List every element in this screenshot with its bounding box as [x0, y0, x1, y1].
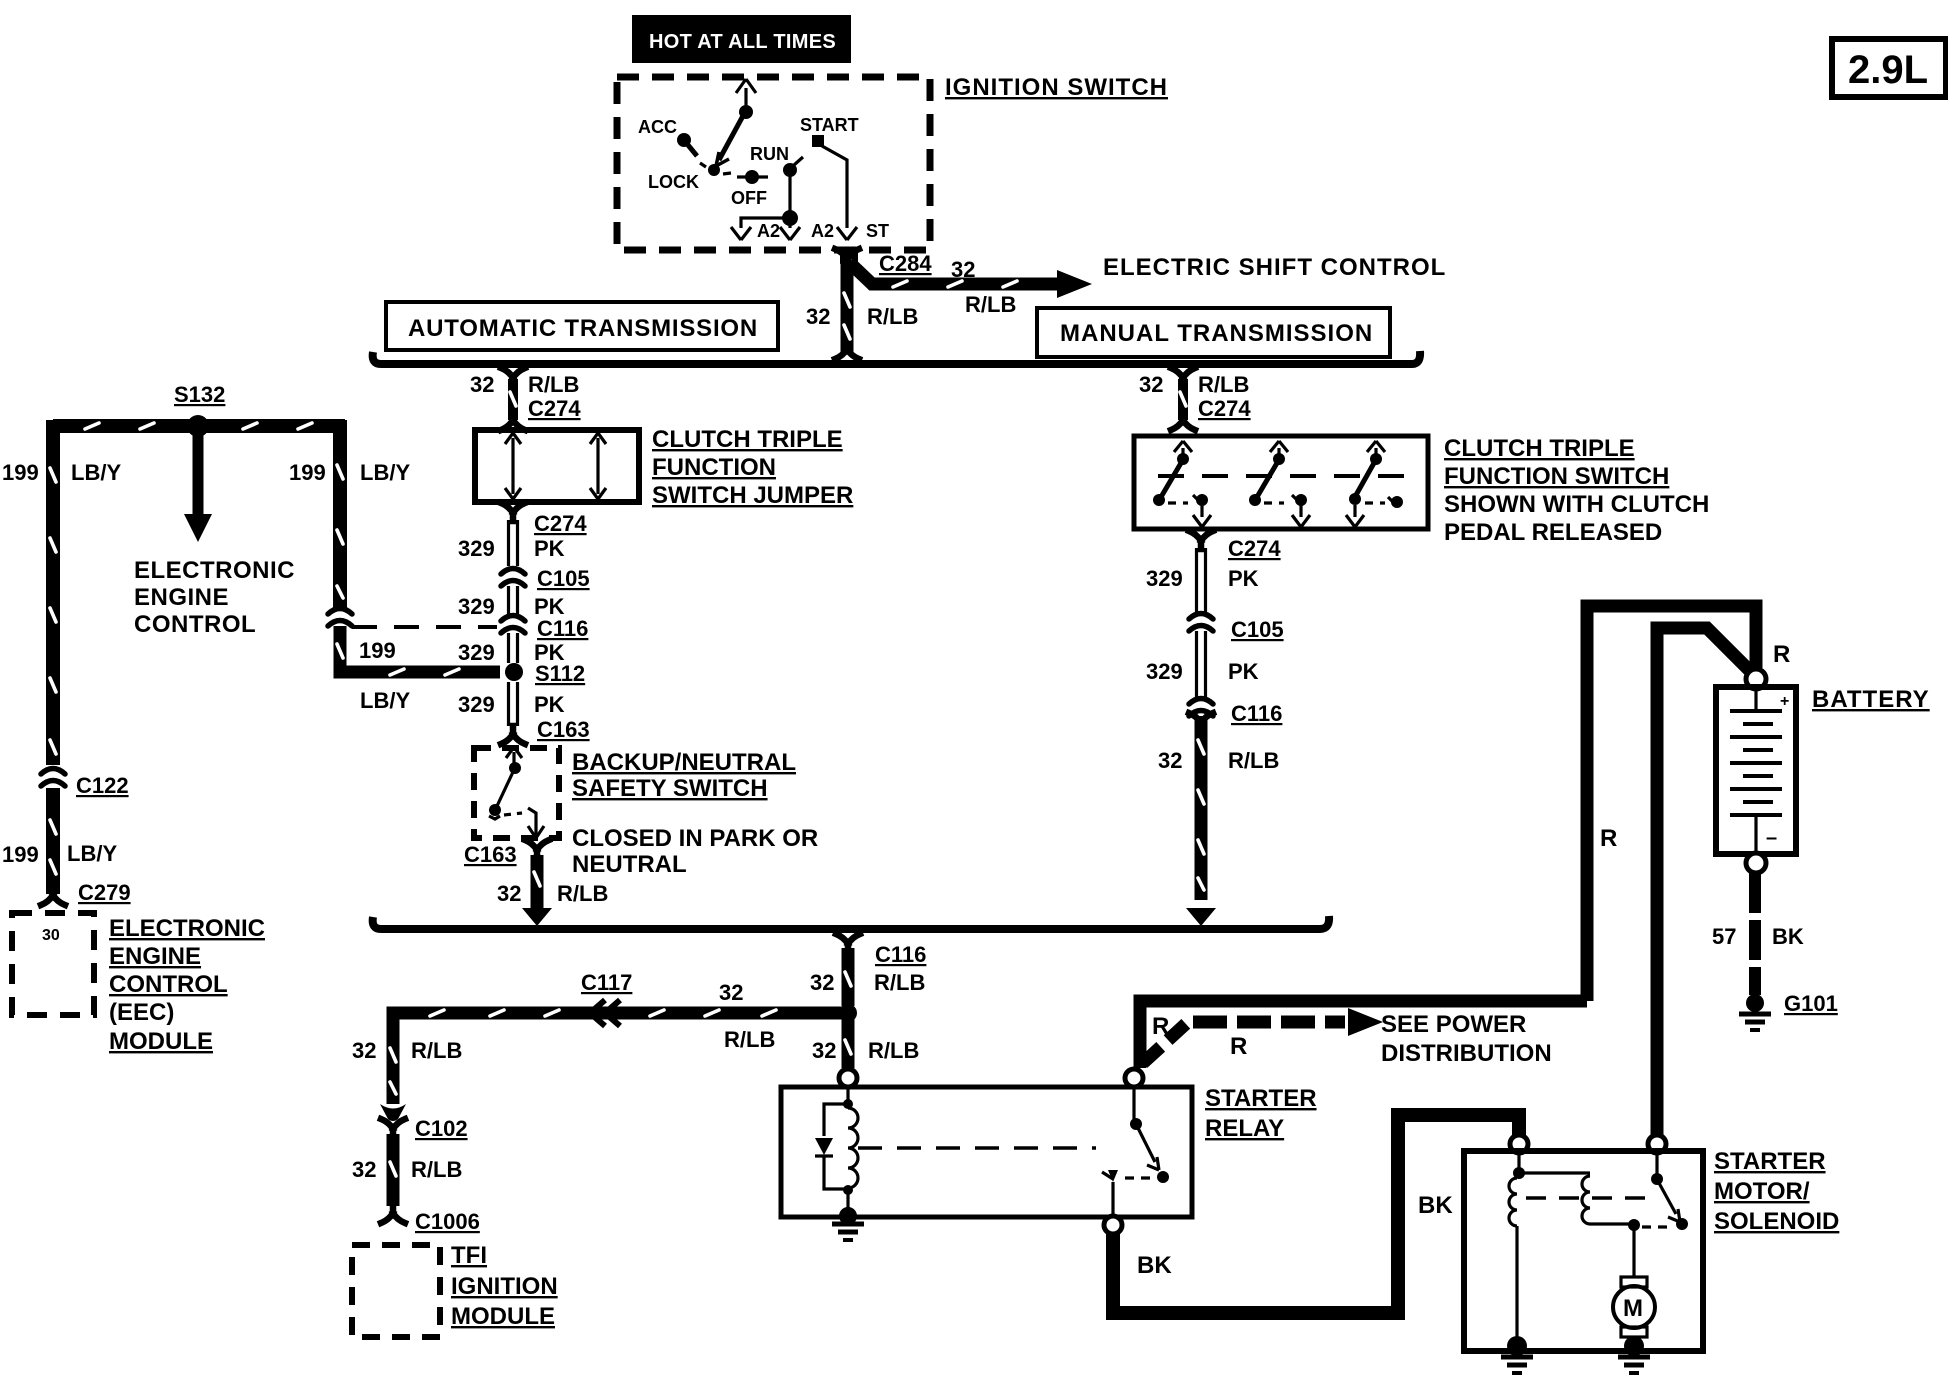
- see power distribution note: [1381, 1011, 1552, 1067]
- starter motor M: [1613, 1219, 1655, 1342]
- svg-text:R: R: [1230, 1033, 1247, 1060]
- svg-text:199: 199: [289, 460, 326, 485]
- label C117: [581, 970, 632, 995]
- connector pair on 199 wire: [328, 609, 352, 627]
- wire label 32 R/LB above bus 2: [497, 881, 608, 906]
- wire 32 R/LB manual to bus 2: [1186, 713, 1216, 926]
- svg-text:ENGINE: ENGINE: [109, 943, 201, 970]
- wire label 32 R/LB (auto C274): [470, 372, 581, 421]
- connector C105 (auto): [501, 569, 525, 618]
- label C116 32 R/LB (bus drop): [810, 942, 926, 995]
- battery box: [1716, 687, 1796, 854]
- battery R feed inner: [1657, 628, 1753, 1140]
- svg-text:LB/Y: LB/Y: [71, 460, 121, 485]
- EEC module label: [109, 915, 265, 1055]
- svg-text:SOLENOID: SOLENOID: [1714, 1208, 1839, 1235]
- wire 199 LB/Y left vertical: [50, 420, 56, 765]
- svg-text:32: 32: [1139, 372, 1163, 397]
- svg-text:32: 32: [810, 970, 834, 995]
- label C116 (manual): [1231, 701, 1282, 726]
- svg-text:NEUTRAL: NEUTRAL: [572, 851, 687, 878]
- svg-text:S112: S112: [535, 661, 585, 686]
- svg-text:CONTROL: CONTROL: [109, 971, 228, 998]
- svg-text:329: 329: [1146, 566, 1183, 591]
- svg-text:AUTOMATIC TRANSMISSION: AUTOMATIC TRANSMISSION: [408, 315, 758, 342]
- wire S132 horizontal run: [53, 423, 345, 429]
- svg-text:R: R: [1152, 1013, 1169, 1040]
- svg-text:PK: PK: [1228, 659, 1259, 684]
- starter relay label: [1205, 1085, 1317, 1142]
- wire label 32 R/LB (manual drop): [1158, 748, 1279, 773]
- starter relay clamp diode: [815, 1104, 845, 1189]
- svg-text:C274: C274: [534, 511, 587, 536]
- svg-text:PEDAL RELEASED: PEDAL RELEASED: [1444, 519, 1662, 546]
- wire label BK (left): [1137, 1252, 1172, 1279]
- svg-text:57: 57: [1712, 924, 1736, 949]
- wire label 32 R/LB (left drop): [352, 1038, 462, 1063]
- electric shift control label: [1103, 254, 1446, 281]
- svg-text:2.9L: 2.9L: [1848, 48, 1928, 92]
- svg-text:C279: C279: [78, 880, 131, 905]
- connector C116 below bus 2: [836, 934, 860, 1006]
- hot at all times power tag: [632, 15, 851, 63]
- wire label 32 R/LB (relay feed): [812, 1038, 919, 1063]
- terminal RUN: [750, 144, 803, 177]
- svg-text:C102: C102: [415, 1116, 468, 1141]
- R wire relay to battery feed: [1140, 1001, 1587, 1068]
- svg-text:32: 32: [951, 257, 975, 282]
- svg-text:ELECTRIC SHIFT CONTROL: ELECTRIC SHIFT CONTROL: [1103, 254, 1446, 281]
- wire label R mid: [1600, 825, 1617, 852]
- svg-text:329: 329: [1146, 659, 1183, 684]
- svg-text:G101: G101: [1784, 991, 1838, 1016]
- svg-text:MODULE: MODULE: [109, 1028, 213, 1055]
- wire label 57 BK: [1712, 924, 1804, 949]
- svg-text:FUNCTION SWITCH: FUNCTION SWITCH: [1444, 463, 1669, 490]
- connector C1006: [381, 1205, 480, 1234]
- BK wire relay to starter motor: [1113, 1115, 1519, 1313]
- connector C117: [590, 1000, 620, 1026]
- wire label 32 R/LB (C117 run): [719, 980, 775, 1052]
- battery negative terminal: [1746, 853, 1766, 873]
- ignition rotor lever: [700, 105, 753, 176]
- svg-text:32: 32: [812, 1038, 836, 1063]
- battery positive terminal: [1746, 669, 1766, 689]
- starter motor ground left: [1501, 1336, 1533, 1373]
- svg-text:199: 199: [2, 460, 39, 485]
- svg-text:30: 30: [42, 927, 60, 944]
- backup/neutral safety switch box: [474, 748, 559, 838]
- pin label A2 second: [811, 221, 834, 241]
- solenoid pull-in coil: [1509, 1151, 1525, 1340]
- clutch jumper box: [475, 430, 639, 502]
- jumper link 2: [590, 433, 606, 499]
- svg-text:BK: BK: [1418, 1192, 1453, 1219]
- starter motor feed pin: [1510, 1135, 1528, 1153]
- svg-text:LOCK: LOCK: [648, 172, 699, 192]
- svg-text:C1006: C1006: [415, 1209, 480, 1234]
- svg-text:TFI: TFI: [451, 1242, 487, 1269]
- svg-text:C116: C116: [537, 616, 588, 641]
- clutch switch pole 1: [1153, 441, 1211, 527]
- svg-text:ENGINE: ENGINE: [134, 584, 229, 611]
- svg-text:329: 329: [458, 640, 495, 665]
- svg-text:C116: C116: [1231, 701, 1282, 726]
- connector C105 (manual): [1189, 614, 1213, 699]
- label 329 PK below S112: [458, 692, 565, 717]
- ignition battery feed arrow: [736, 79, 756, 112]
- svg-text:STARTER: STARTER: [1205, 1085, 1317, 1112]
- svg-text:C105: C105: [537, 566, 590, 591]
- svg-text:R/LB: R/LB: [411, 1038, 462, 1063]
- svg-text:C122: C122: [76, 773, 129, 798]
- wire 32 R/LB to C1006: [390, 1134, 396, 1206]
- svg-text:PK: PK: [1228, 566, 1259, 591]
- wire 32 R/LB to starter relay: [845, 1013, 851, 1068]
- terminal LOCK: [648, 172, 699, 192]
- solenoid switch: [1642, 1151, 1688, 1230]
- wire 199 LB/Y right vertical: [337, 420, 343, 608]
- svg-text:SAFETY SWITCH: SAFETY SWITCH: [572, 775, 768, 802]
- svg-text:SWITCH JUMPER: SWITCH JUMPER: [652, 482, 853, 509]
- svg-text:A2: A2: [811, 221, 834, 241]
- starter relay switch: [1125, 1087, 1169, 1183]
- starter relay armature link: [858, 1146, 1096, 1150]
- svg-text:IGNITION: IGNITION: [451, 1273, 558, 1300]
- solenoid hold-in coil: [1519, 1173, 1630, 1224]
- wire ignition switch to bus 1: [835, 249, 859, 359]
- electronic engine control note: [134, 557, 295, 638]
- svg-text:C105: C105: [1231, 617, 1284, 642]
- ground label G101: [1784, 991, 1838, 1016]
- wire branch to electric shift control: [851, 264, 1092, 298]
- svg-text:RUN: RUN: [750, 144, 789, 164]
- EEC module box: [12, 913, 94, 1015]
- connector C163 below switch: [464, 840, 549, 867]
- arrow S132 to electronic engine control: [184, 433, 212, 542]
- clutch triple function switch label: [1444, 435, 1709, 546]
- wire label 199 LB/Y right: [289, 460, 410, 485]
- starter solenoid battery pin: [1648, 1135, 1666, 1153]
- svg-text:R: R: [1600, 825, 1617, 852]
- svg-text:C117: C117: [581, 970, 632, 995]
- connector C284: [840, 251, 932, 276]
- svg-text:ELECTRONIC: ELECTRONIC: [109, 915, 265, 942]
- starter motor ground right: [1618, 1336, 1650, 1373]
- label 329 PK C274: [458, 511, 587, 561]
- svg-text:–: –: [1766, 827, 1777, 849]
- svg-text:C116: C116: [875, 942, 926, 967]
- svg-text:R/LB: R/LB: [1228, 748, 1279, 773]
- starter relay output contact: [1102, 1170, 1118, 1215]
- solenoid plunger link: [1526, 1196, 1655, 1200]
- manual transmission banner: [1037, 308, 1390, 357]
- svg-text:199: 199: [359, 638, 396, 663]
- starter motor box: [1464, 1151, 1703, 1351]
- svg-text:C163: C163: [464, 842, 517, 867]
- ignition switch box: [617, 77, 930, 250]
- wire label 32 R/LB (shift branch): [951, 257, 1016, 317]
- wire label 199 LB/Y lower left: [2, 841, 117, 867]
- svg-text:CONTROL: CONTROL: [134, 611, 256, 638]
- svg-text:SHOWN WITH CLUTCH: SHOWN WITH CLUTCH: [1444, 491, 1709, 518]
- svg-text:R/LB: R/LB: [1198, 372, 1249, 397]
- svg-text:PK: PK: [534, 692, 565, 717]
- svg-text:BK: BK: [1772, 924, 1804, 949]
- svg-text:S132: S132: [174, 382, 225, 407]
- automatic transmission banner: [386, 302, 778, 350]
- svg-text:C274: C274: [1198, 396, 1251, 421]
- svg-text:329: 329: [458, 536, 495, 561]
- svg-text:SEE POWER: SEE POWER: [1381, 1011, 1526, 1038]
- svg-text:CLUTCH TRIPLE: CLUTCH TRIPLE: [652, 426, 843, 453]
- pin label ST: [866, 221, 889, 241]
- svg-text:FUNCTION: FUNCTION: [652, 454, 776, 481]
- wire label BK (right): [1418, 1192, 1453, 1219]
- wire label 199 LB/Y bottom: [359, 638, 410, 713]
- clutch triple function switch box: [1134, 436, 1428, 529]
- backup switch label: [572, 749, 796, 802]
- svg-text:32: 32: [352, 1038, 376, 1063]
- svg-text:C274: C274: [528, 396, 581, 421]
- pin label A2: [757, 221, 780, 241]
- svg-text:PK: PK: [534, 536, 565, 561]
- svg-text:R/LB: R/LB: [557, 881, 608, 906]
- wire 32 R/LB to bus 2: [522, 855, 552, 926]
- ground G101: [1739, 994, 1771, 1030]
- connector C163: [501, 717, 590, 744]
- connector C102: [380, 1104, 468, 1141]
- wire label R (upper): [1152, 1013, 1169, 1040]
- svg-text:R: R: [1773, 641, 1790, 668]
- clutch switch pole 3: [1346, 441, 1403, 527]
- label 329 PK C116: [458, 616, 588, 665]
- wire 199 LB/Y to S112: [337, 626, 500, 675]
- TFI ignition module label: [451, 1242, 558, 1330]
- starter relay output pin: [1104, 1216, 1122, 1234]
- svg-text:MODULE: MODULE: [451, 1303, 555, 1330]
- clutch switch dashed common: [1158, 474, 1420, 478]
- clutch switch pole 2: [1249, 441, 1310, 527]
- svg-text:329: 329: [458, 594, 495, 619]
- backup switch output contact: [504, 808, 544, 838]
- ignition switch label: [945, 74, 1168, 101]
- connector C116 (manual): [1189, 699, 1213, 717]
- battery R feed outer: [1587, 606, 1756, 1001]
- dashed link to C116: [352, 625, 497, 629]
- wire label R at battery: [1773, 641, 1790, 668]
- svg-text:32: 32: [470, 372, 494, 397]
- svg-text:RELAY: RELAY: [1205, 1115, 1284, 1142]
- connector C274 at bus 1 (manual): [1171, 368, 1195, 430]
- svg-text:BATTERY: BATTERY: [1812, 686, 1930, 713]
- svg-text:A2: A2: [757, 221, 780, 241]
- svg-text:+: +: [1780, 693, 1789, 710]
- svg-text:R/LB: R/LB: [874, 970, 925, 995]
- wire 32 R/LB run to C102: [390, 1010, 848, 1104]
- svg-text:R/LB: R/LB: [724, 1027, 775, 1052]
- svg-text:LB/Y: LB/Y: [360, 688, 410, 713]
- starter motor label: [1714, 1148, 1839, 1235]
- svg-text:R/LB: R/LB: [965, 292, 1016, 317]
- wire RUN to A2 pair: [731, 176, 800, 240]
- svg-text:START: START: [800, 115, 859, 135]
- backup switch contact feed: [506, 747, 522, 774]
- svg-text:CLOSED IN PARK OR: CLOSED IN PARK OR: [572, 825, 818, 852]
- svg-text:199: 199: [2, 842, 39, 867]
- wire label 199 LB/Y upper left: [2, 460, 121, 485]
- terminal ACC: [638, 117, 697, 156]
- connector C274 below clutch switch: [1189, 531, 1213, 614]
- 2.9L engine tag: [1832, 39, 1946, 97]
- svg-text:32: 32: [719, 980, 743, 1005]
- svg-text:C284: C284: [879, 251, 932, 276]
- label 329 PK C105: [458, 566, 590, 619]
- starter relay coil: [843, 1087, 858, 1213]
- svg-text:STARTER: STARTER: [1714, 1148, 1826, 1175]
- battery label: [1812, 686, 1930, 713]
- svg-text:C163: C163: [537, 717, 590, 742]
- junction node at C117 run: [839, 1004, 857, 1022]
- svg-text:ACC: ACC: [638, 117, 677, 137]
- connector C274 below jumper: [501, 503, 525, 566]
- starter relay battery pin: [1125, 1069, 1143, 1087]
- connector C116 (auto): [501, 616, 525, 664]
- svg-text:R/LB: R/LB: [867, 304, 918, 329]
- svg-text:C274: C274: [1228, 536, 1281, 561]
- svg-text:BK: BK: [1137, 1252, 1172, 1279]
- svg-text:LB/Y: LB/Y: [360, 460, 410, 485]
- wire 199 LB/Y to EEC: [41, 788, 65, 905]
- svg-text:R/LB: R/LB: [528, 372, 579, 397]
- starter relay ground: [832, 1207, 864, 1240]
- terminal START: [800, 115, 859, 147]
- R wire dashed to power distribution: [1143, 1008, 1383, 1063]
- battery cells: [1730, 690, 1789, 851]
- svg-text:32: 32: [1158, 748, 1182, 773]
- TFI ignition module box: [352, 1245, 440, 1337]
- connector C122: [41, 769, 129, 799]
- svg-text:R/LB: R/LB: [868, 1038, 919, 1063]
- svg-text:ST: ST: [866, 221, 889, 241]
- splice S112 node: [505, 661, 585, 686]
- svg-text:MANUAL TRANSMISSION: MANUAL TRANSMISSION: [1060, 320, 1373, 347]
- label 329 PK C274 (manual): [1146, 536, 1281, 591]
- jumper link 1: [505, 433, 521, 499]
- svg-text:DISTRIBUTION: DISTRIBUTION: [1381, 1040, 1552, 1067]
- connector C279: [78, 880, 131, 905]
- terminal OFF: [731, 170, 768, 208]
- svg-text:OFF: OFF: [731, 188, 767, 208]
- splice S132 label: [174, 382, 225, 407]
- svg-text:HOT AT ALL TIMES: HOT AT ALL TIMES: [649, 31, 836, 53]
- svg-text:IGNITION SWITCH: IGNITION SWITCH: [945, 74, 1168, 101]
- svg-text:(EEC): (EEC): [109, 999, 174, 1026]
- svg-text:M: M: [1623, 1295, 1643, 1322]
- svg-text:MOTOR/: MOTOR/: [1714, 1178, 1810, 1205]
- svg-text:32: 32: [352, 1157, 376, 1182]
- svg-text:32: 32: [497, 881, 521, 906]
- wire START to ST: [822, 146, 857, 240]
- svg-text:CLUTCH TRIPLE: CLUTCH TRIPLE: [1444, 435, 1635, 462]
- svg-text:BACKUP/NEUTRAL: BACKUP/NEUTRAL: [572, 749, 796, 776]
- wire label R (lower): [1230, 1033, 1247, 1060]
- svg-text:32: 32: [806, 304, 830, 329]
- clutch jumper label: [652, 426, 853, 509]
- svg-text:ELECTRONIC: ELECTRONIC: [134, 557, 295, 584]
- wire 329 PK to C163: [509, 682, 518, 726]
- wire 57 BK to ground: [1749, 873, 1761, 995]
- wire label 32 R/LB (TFI feed): [352, 1157, 462, 1182]
- wire label 32 R/LB (manual C274): [1139, 372, 1251, 421]
- closed in park note: [572, 825, 818, 878]
- starter relay coil pin: [839, 1069, 857, 1087]
- bus line 2: [373, 916, 1329, 929]
- label 329 PK C105 (manual): [1146, 617, 1284, 684]
- svg-text:329: 329: [458, 692, 495, 717]
- backup switch lever: [489, 772, 513, 819]
- connector C274 at bus 1 (automatic): [501, 368, 525, 430]
- splice S132 node: [187, 415, 209, 437]
- bus line 1: [373, 351, 1420, 364]
- wire label 32 R/LB (ignition feed): [806, 304, 918, 329]
- starter relay box: [781, 1087, 1192, 1217]
- svg-text:LB/Y: LB/Y: [67, 841, 117, 866]
- svg-text:R/LB: R/LB: [411, 1157, 462, 1182]
